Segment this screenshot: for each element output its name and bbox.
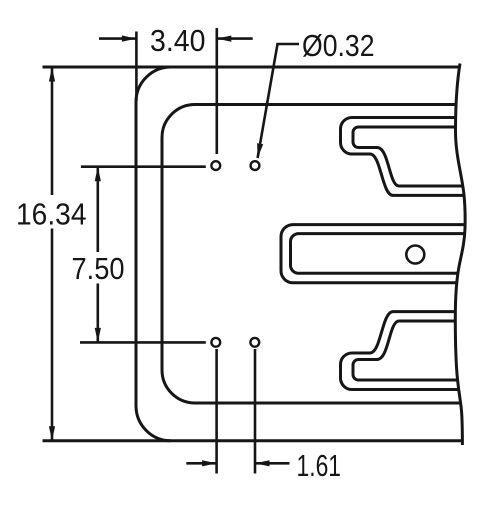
arrow 1.61 right	[255, 460, 270, 466]
svg-text:7.50: 7.50	[72, 252, 125, 286]
arrow 3.40 left	[122, 36, 136, 42]
dim 1.61 tail left	[186, 462, 216, 465]
dim 1.61 extension line right	[254, 349, 257, 474]
part inner contour	[162, 105, 462, 404]
dim 16.34 line lower	[51, 229, 54, 441]
arrow 7.50 up	[95, 167, 101, 182]
part top edge with 16.34 extension line	[43, 66, 462, 69]
dim 7.50 line lower	[97, 284, 100, 343]
hole top-right	[251, 161, 260, 170]
arrow 1.61 left	[202, 460, 217, 466]
top slot inner contour	[353, 127, 463, 186]
dim 1.61 tail right	[255, 462, 290, 465]
dim 7.50 extension line bottom	[80, 341, 206, 344]
arrow 7.50 down	[95, 328, 101, 343]
part outer contour left side (corners + left edge)	[136, 67, 171, 441]
dim 1.61 extension line left	[215, 349, 218, 474]
leader line for hole diameter	[258, 44, 299, 158]
dim 16.34 line upper	[51, 67, 54, 195]
svg-text:Ø0.32: Ø0.32	[302, 29, 375, 63]
part bottom edge with 16.34 extension line	[43, 439, 464, 442]
break line (wavy right edge)	[455, 64, 465, 446]
dim 3.40 extension line left	[135, 32, 138, 102]
white mask right of break line	[455, 64, 500, 446]
dim 7.50 extension line top	[81, 165, 206, 168]
bottom slot outer contour	[341, 312, 464, 390]
middle slot outer contour	[281, 225, 466, 283]
hole bottom-right	[250, 338, 259, 347]
svg-text:3.40: 3.40	[150, 24, 206, 58]
hole bottom-left	[211, 338, 220, 347]
svg-text:1.61: 1.61	[297, 449, 342, 483]
dim 3.40 tail right	[217, 37, 253, 40]
arrow 16.34 up	[49, 67, 55, 82]
svg-text:16.34: 16.34	[16, 198, 87, 232]
arrow leader	[257, 143, 263, 158]
top slot outer contour	[341, 118, 464, 196]
bottom slot inner contour	[353, 321, 463, 380]
dim 3.40 tail left	[99, 37, 136, 40]
dim 7.50 line upper	[97, 167, 100, 252]
hole top-left	[211, 161, 220, 170]
middle slot inner contour	[291, 234, 467, 274]
arrow 16.34 down	[49, 426, 55, 441]
hole in middle slot	[406, 246, 424, 264]
arrow 3.40 right	[217, 36, 232, 42]
dim 3.40 extension line right	[216, 28, 219, 154]
